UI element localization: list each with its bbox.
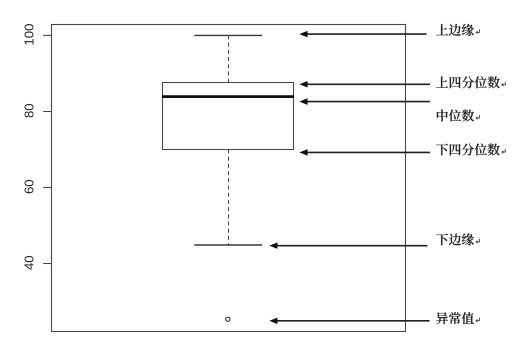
plot frame — [52, 25, 406, 332]
arrow to Q3 (上四分位数) — [300, 82, 430, 88]
paragraph mark after 下四分位数 — [502, 149, 506, 153]
arrow to outlier (异常值) — [270, 318, 429, 324]
label 上四分位数 (upper quartile) — [436, 76, 500, 88]
upper whisker cap (max = 100) — [194, 34, 262, 36]
IQR box (Q1-Q3) — [163, 83, 294, 150]
paragraph mark after 异常值 — [476, 318, 480, 322]
lower dashed whisker line — [228, 150, 230, 246]
paragraph mark after 上四分位数 — [502, 82, 506, 86]
label 下边缘 (lower edge) — [436, 233, 474, 245]
y-axis tick 60 — [43, 187, 51, 189]
svg-text:60: 60 — [21, 179, 36, 194]
median line — [162, 95, 294, 98]
paragraph mark after 下边缘 — [476, 239, 480, 243]
label 下四分位数 (lower quartile) — [436, 143, 500, 155]
arrow to lower whisker (下边缘) — [270, 243, 427, 249]
upper dashed whisker line — [228, 35, 230, 82]
svg-text:40: 40 — [21, 255, 36, 270]
label 上边缘 (upper edge) — [436, 24, 474, 36]
arrow to Q1 (下四分位数) — [300, 150, 430, 156]
arrow to median (中位数) — [300, 99, 430, 105]
arrow to upper whisker (上边缘) — [300, 31, 426, 37]
label 中位数 (median) — [437, 109, 474, 121]
outlier point — [226, 317, 230, 321]
y-axis tick 40 — [43, 263, 51, 265]
lower whisker cap (min = 45) — [194, 244, 262, 246]
y-axis tick 80 — [43, 111, 51, 113]
paragraph mark after 上边缘 — [476, 29, 480, 33]
paragraph mark after 中位数 — [476, 115, 480, 119]
svg-text:80: 80 — [21, 103, 36, 118]
svg-text:100: 100 — [21, 24, 36, 46]
label 异常值 (outlier) — [436, 312, 474, 324]
y-axis tick 100 — [43, 34, 51, 36]
